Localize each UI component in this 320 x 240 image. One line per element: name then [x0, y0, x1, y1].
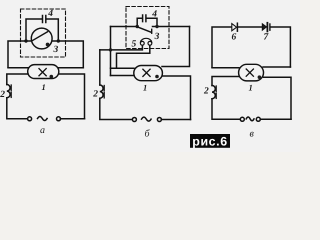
svg-text:3: 3	[53, 45, 59, 55]
svg-text:а: а	[40, 125, 45, 136]
terminal right (v)	[256, 117, 260, 121]
wire lamp lower-right (a)	[59, 74, 85, 119]
svg-text:2: 2	[92, 90, 98, 100]
capacitor C4 plates (a)	[43, 16, 46, 23]
AC source tilde (b)	[142, 117, 152, 121]
contact 3 fixed stub (b)	[151, 29, 153, 33]
wire bottom right (b)	[161, 119, 190, 121]
wire lamp upper-left (b)	[111, 67, 135, 69]
wire bottom left (a)	[7, 98, 28, 119]
screening dashed box (circuit a)	[21, 9, 66, 57]
interrupter 3 contact dot (a)	[46, 43, 50, 47]
svg-text:2: 2	[0, 90, 5, 100]
contact 3 lever (b)	[137, 27, 151, 32]
wire lamp upper-left (a)	[8, 67, 28, 69]
electromagnet 5 left coil (b)	[140, 41, 144, 45]
wire capacitor branch left (a)	[26, 19, 42, 41]
wire main left of contact (b)	[111, 26, 138, 28]
wire lamp lower-left (b)	[111, 75, 135, 77]
svg-text:1: 1	[42, 82, 46, 92]
lamp 1 envelope (a)	[28, 65, 59, 79]
inductor core dashes (b)	[103, 86, 105, 98]
wire capacitor branch left (b)	[137, 18, 142, 26]
wire left vertical lower (b)	[99, 50, 101, 85]
svg-text:в: в	[250, 129, 255, 140]
wire tap horizontal (b)	[100, 46, 143, 50]
node junction dot right (a)	[57, 39, 60, 42]
interrupter 3 circle (a)	[31, 28, 52, 49]
wire capacitor branch right (b)	[147, 18, 157, 26]
lamp 1 envelope (b)	[134, 66, 163, 81]
inductor coil 2 (a)	[7, 85, 10, 98]
svg-text:6: 6	[232, 33, 237, 43]
diode 6 bar (v)	[236, 23, 238, 31]
lamp 1 gas dot (a)	[50, 75, 54, 79]
inductor coil 2 (v)	[212, 86, 215, 99]
wire lamp upper-right (b)	[162, 27, 190, 67]
lamp 1 filament cross (b)	[143, 69, 150, 76]
wire lamp lower-right (v)	[264, 77, 292, 119]
wire lamp lower-right (b)	[162, 76, 190, 120]
svg-text:3: 3	[154, 32, 160, 42]
wire top right segment (a)	[52, 41, 83, 68]
AC source tilde (a)	[38, 117, 48, 121]
screening dashed box (circuit b)	[126, 7, 169, 49]
lamp 1 gas dot (b)	[155, 75, 159, 79]
wire capacitor branch right (a)	[47, 19, 59, 41]
wire from 5 right coil down (b)	[117, 46, 150, 69]
interrupter 3 lever (a)	[32, 32, 48, 41]
wire top left segment (v)	[212, 27, 232, 67]
node junction dot crossing (b)	[109, 48, 112, 51]
diode 7 filled triangle (v)	[262, 24, 266, 30]
terminal left (b)	[132, 118, 136, 122]
node junction dot left (a)	[24, 39, 27, 42]
terminal left (a)	[28, 117, 32, 121]
diode 7 second bar (v)	[269, 24, 271, 30]
svg-text:4: 4	[47, 9, 53, 19]
svg-text:1: 1	[143, 83, 147, 93]
diode 7 bar (v)	[266, 23, 268, 32]
wire lamp upper-right (a)	[59, 67, 84, 69]
wire left vertical (b)	[110, 27, 112, 76]
node junction dot left (b)	[136, 25, 139, 28]
terminal right (b)	[157, 118, 161, 122]
wire top middle segment (v)	[238, 26, 262, 28]
svg-text:4: 4	[151, 10, 157, 20]
wire top right segment (v)	[271, 27, 291, 67]
svg-text:рис.6: рис.6	[192, 135, 227, 149]
node junction dot right (b)	[155, 25, 158, 28]
wire lamp lower-left (v)	[212, 77, 239, 86]
capacitor C4 plates (b)	[143, 15, 146, 22]
diode 6 triangle (v)	[232, 24, 237, 31]
inductor core dashes (v)	[215, 86, 217, 98]
terminal right (a)	[57, 117, 61, 121]
wire bottom left (v)	[212, 99, 240, 120]
wire bottom left (b)	[100, 98, 133, 119]
lamp 1 filament cross (a)	[39, 69, 46, 76]
electromagnet 5 armature arc (b)	[140, 38, 151, 42]
wire lamp upper-left (v)	[212, 67, 239, 69]
svg-text:5: 5	[132, 40, 137, 50]
lamp 1 gas dot (v)	[258, 75, 262, 79]
wire top left segment (a)	[8, 41, 31, 67]
lamp 1 envelope (v)	[239, 64, 264, 81]
wire main right of contact (b)	[153, 26, 190, 28]
wire lamp upper-right (v)	[263, 66, 290, 68]
wire bottom right (a)	[60, 118, 84, 120]
svg-text:1: 1	[249, 83, 253, 93]
AC source tilde (v)	[246, 117, 254, 121]
lamp 1 filament cross (v)	[246, 69, 253, 76]
figure caption plate	[190, 134, 230, 149]
electromagnet 5 right coil (b)	[148, 41, 152, 45]
inductor coil 2 (b)	[100, 85, 103, 98]
svg-text:2: 2	[203, 87, 209, 97]
wire lamp lower-left (a)	[7, 74, 28, 85]
wire bottom right (v)	[260, 118, 291, 120]
terminal left (v)	[240, 117, 244, 121]
inductor core dashes (a)	[10, 85, 12, 97]
